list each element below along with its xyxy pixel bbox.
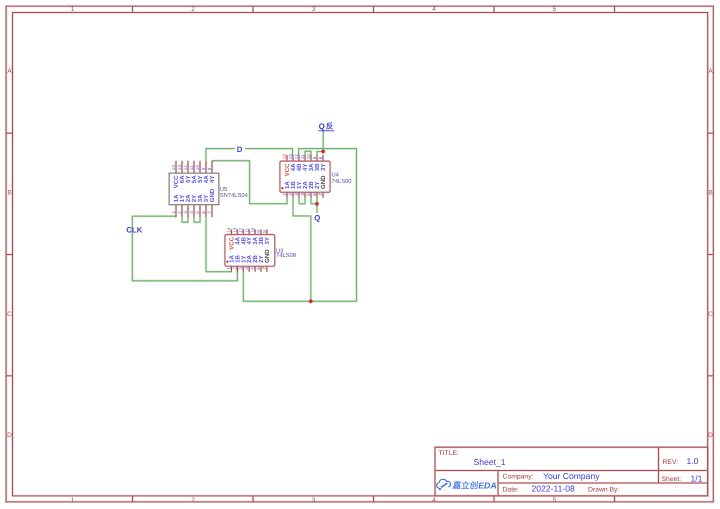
svg-text:5: 5 [553,497,557,504]
svg-text:GND: GND [209,188,216,202]
svg-text:TITLE:: TITLE: [439,450,460,457]
svg-text:11: 11 [189,165,194,170]
svg-text:14: 14 [227,227,232,233]
svg-text:SN74LS04: SN74LS04 [220,192,249,199]
svg-text:1.0: 1.0 [687,456,699,466]
svg-text:74LS00: 74LS00 [332,178,352,185]
svg-text:3: 3 [312,6,316,13]
svg-text:Sheet_1: Sheet_1 [474,457,506,467]
svg-text:7: 7 [207,211,212,214]
svg-text:13: 13 [177,165,182,171]
svg-text:1/1: 1/1 [691,473,703,483]
svg-text:4: 4 [244,267,249,270]
svg-text:2: 2 [191,497,195,504]
svg-text:4: 4 [432,497,436,504]
svg-text:7: 7 [318,193,323,196]
svg-text:6: 6 [256,267,261,270]
svg-text:D: D [7,432,12,439]
svg-text:Q: Q [314,213,320,222]
svg-text:5: 5 [250,267,255,270]
svg-text:C: C [7,311,12,318]
svg-text:14: 14 [171,165,176,171]
svg-text:Company:: Company: [503,474,534,481]
svg-text:5: 5 [553,6,557,13]
svg-text:2: 2 [288,193,293,196]
svg-text:9: 9 [201,167,206,170]
svg-text:10: 10 [250,227,255,233]
svg-text:12: 12 [239,227,244,233]
svg-text:Date:: Date: [503,486,519,493]
svg-text:1: 1 [71,497,75,504]
svg-text:13: 13 [233,227,238,233]
svg-text:4: 4 [432,6,436,13]
svg-text:A: A [708,68,713,75]
svg-text:Drawn By:: Drawn By: [588,486,619,493]
svg-text:2022-11-08: 2022-11-08 [532,484,576,494]
svg-text:3: 3 [239,267,244,270]
svg-text:9: 9 [256,230,261,233]
svg-text:13: 13 [288,154,293,160]
svg-text:12: 12 [294,154,299,160]
svg-text:EDA: EDA [478,480,497,490]
svg-text:11: 11 [300,154,305,159]
svg-text:3: 3 [294,193,299,196]
svg-text:3Y: 3Y [264,237,271,244]
svg-text:C: C [708,311,713,318]
svg-text:5: 5 [306,193,311,196]
svg-text:10: 10 [306,154,311,160]
svg-text:3Y: 3Y [320,164,327,171]
svg-text:Sheet:: Sheet: [662,476,682,483]
svg-text:A: A [7,68,12,75]
svg-text:6: 6 [201,211,206,214]
svg-text:1: 1 [282,193,287,196]
svg-text:CLK: CLK [126,225,142,234]
svg-text:D: D [708,432,713,439]
svg-text:Q: Q [319,122,325,131]
svg-text:2: 2 [191,6,195,13]
svg-text:5: 5 [195,211,200,214]
svg-text:4: 4 [189,211,194,214]
svg-text:8: 8 [262,230,267,233]
svg-text:B: B [7,190,11,197]
svg-text:8: 8 [318,156,323,159]
svg-text:1: 1 [227,267,232,270]
svg-text:3: 3 [183,211,188,214]
svg-text:B: B [708,190,712,197]
svg-text:REV:: REV: [663,459,679,466]
svg-text:4: 4 [300,193,305,196]
svg-text:GND: GND [320,175,327,189]
svg-text:D: D [237,145,243,154]
svg-text:4Y: 4Y [209,175,216,182]
svg-text:Your Company: Your Company [543,471,600,481]
svg-text:GND: GND [264,249,271,263]
svg-text:U4: U4 [332,173,340,179]
svg-text:14: 14 [282,154,287,160]
svg-text:2: 2 [233,267,238,270]
svg-text:1: 1 [171,211,176,214]
svg-text:9: 9 [312,156,317,159]
svg-text:7: 7 [262,267,267,270]
svg-text:74LS08: 74LS08 [276,252,296,259]
svg-text:10: 10 [195,165,200,171]
svg-text:1: 1 [71,6,75,13]
svg-text:3: 3 [312,497,316,504]
svg-text:12: 12 [183,165,188,171]
svg-text:2: 2 [177,211,182,214]
svg-text:6: 6 [312,193,317,196]
svg-text:11: 11 [244,228,249,233]
svg-text:8: 8 [207,167,212,170]
